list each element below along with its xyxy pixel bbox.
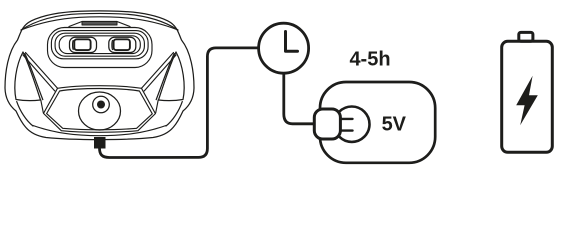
- svg-text:5V: 5V: [382, 113, 407, 135]
- headlamp face crease lines: [23, 53, 176, 92]
- cable from lamp to clock: [100, 48, 259, 158]
- headlamp bottom edge lines: [33, 126, 166, 136]
- headlamp usb port: [94, 137, 106, 149]
- battery body: [502, 41, 553, 152]
- battery lightning bolt: [516, 76, 538, 126]
- headlamp left LED lens: [70, 37, 97, 52]
- plug prongs: [341, 119, 353, 131]
- headlamp inner corner contours: [17, 100, 183, 126]
- socket circle: [334, 107, 369, 142]
- headlamp right side wing: [156, 52, 184, 101]
- headlamp lower hexagon face: [44, 86, 156, 133]
- wire from clock to plug: [284, 73, 314, 123]
- battery cap: [519, 32, 533, 41]
- headlamp top slot: [69, 22, 130, 27]
- svg-text:4-5h: 4-5h: [349, 49, 390, 71]
- headlamp lens recess panels: [48, 28, 153, 68]
- headlamp button dot: [97, 101, 105, 109]
- headlamp top band curves: [21, 13, 178, 30]
- charger rounded box: [320, 82, 435, 163]
- headlamp outer silhouette: [5, 11, 194, 140]
- headlamp right LED lens: [109, 37, 136, 52]
- clock hands: [286, 32, 298, 52]
- headlamp button circle: [79, 92, 121, 130]
- clock icon circle: [259, 23, 309, 73]
- usb plug body: [314, 109, 340, 139]
- headlamp left side wing: [15, 52, 43, 101]
